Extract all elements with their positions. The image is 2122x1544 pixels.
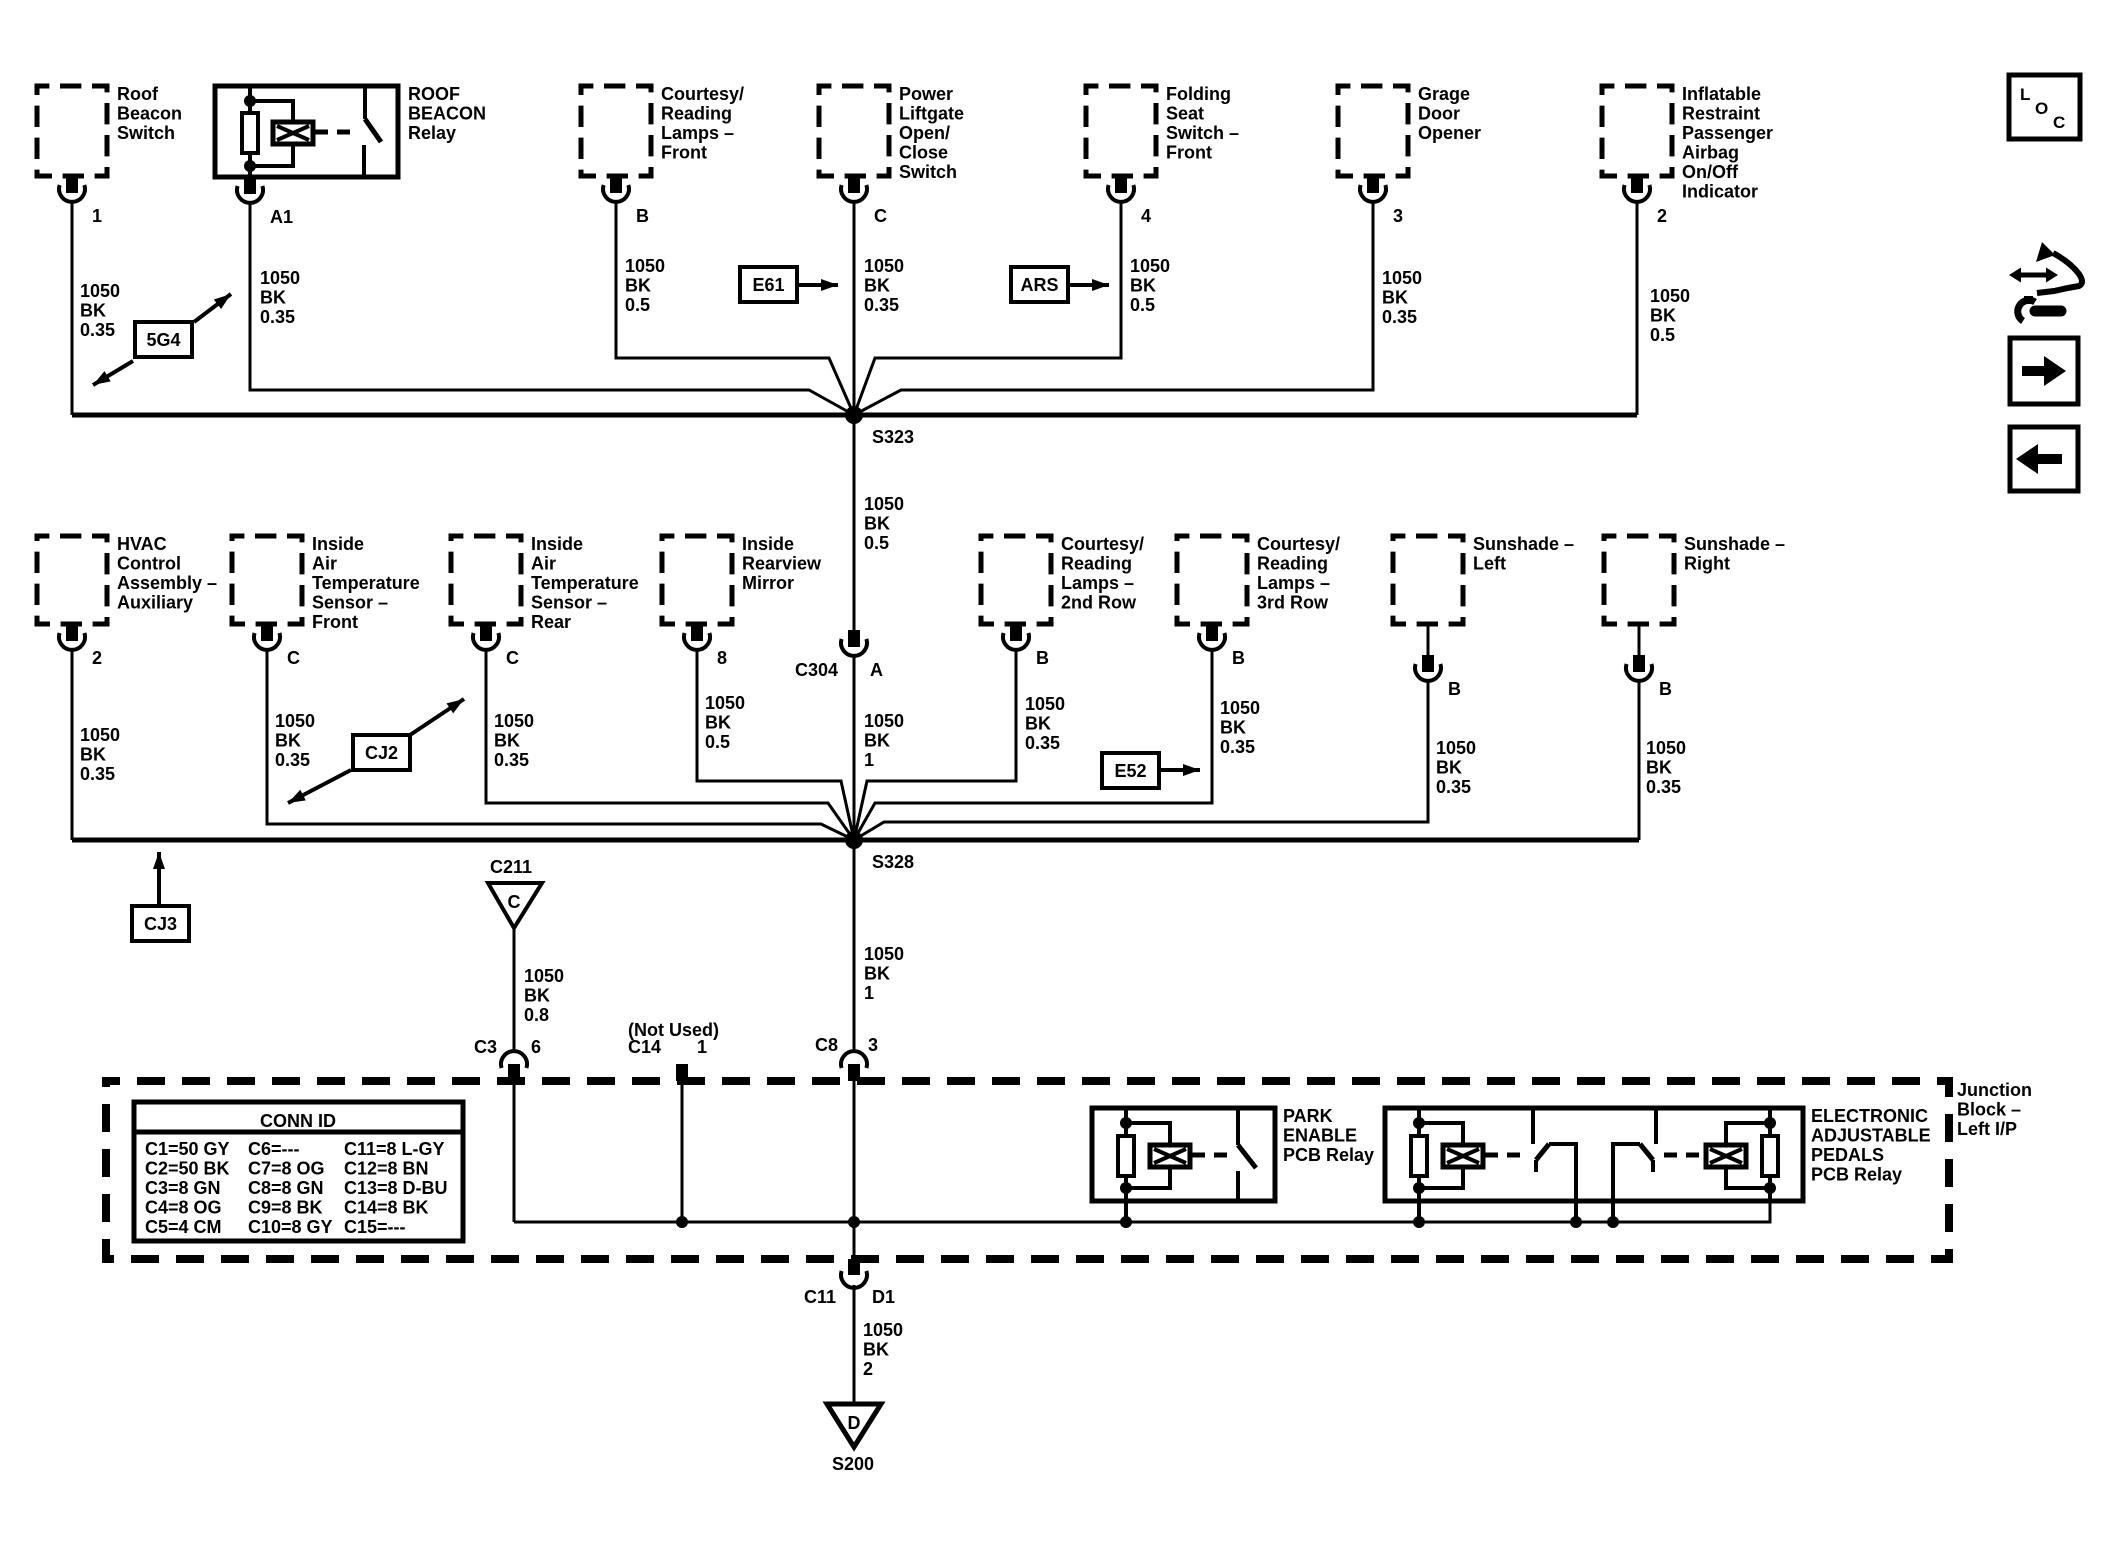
svg-text:CJ2: CJ2 <box>365 743 398 763</box>
connector C8 pin 3 <box>815 1035 878 1081</box>
svg-text:C5=4 CM: C5=4 CM <box>145 1217 222 1237</box>
svg-text:E52: E52 <box>1114 761 1146 781</box>
svg-text:S200: S200 <box>832 1454 874 1474</box>
svg-text:2: 2 <box>1657 206 1667 226</box>
wire label 1050 BK 0.35 <box>80 725 120 784</box>
in-line connector C304 pin A <box>795 630 883 680</box>
EAP right node top <box>1764 1117 1776 1129</box>
relay coil branch vertical <box>248 86 252 177</box>
connector pin 4 of Folding Seat Switch - Front <box>1108 176 1151 226</box>
wire: Inside Air Temp Rear C to S328 <box>486 651 854 840</box>
relay resistor <box>242 113 258 153</box>
svg-text:CONN ID: CONN ID <box>260 1111 336 1131</box>
svg-text:C211: C211 <box>490 857 532 877</box>
ground G: triangle D <box>827 1404 881 1447</box>
svg-text:S328: S328 <box>872 852 914 872</box>
svg-text:C: C <box>508 892 521 912</box>
wire: C3 into block <box>513 1081 516 1222</box>
svg-text:C11: C11 <box>804 1287 836 1307</box>
connector pin 8 of Inside Rearview Mirror <box>684 624 727 668</box>
component box: Grage Door Opener <box>1338 84 1481 176</box>
svg-text:C304: C304 <box>795 660 838 680</box>
relay coil loop wiring <box>250 101 293 166</box>
wire: S328 ground bus row2 <box>72 838 1639 843</box>
svg-text:C14: C14 <box>628 1037 661 1057</box>
EAP left node top <box>1413 1117 1425 1129</box>
connector pin B of Sunshade - Right <box>1626 624 1672 699</box>
svg-text:C10=8 GY: C10=8 GY <box>248 1217 333 1237</box>
junction dot sw2/bus <box>1607 1216 1619 1228</box>
wire: S323 ground bus row1 <box>72 413 1637 418</box>
relay connector pin A1 <box>237 177 293 227</box>
wire label 1050 BK 2 <box>863 1320 903 1379</box>
svg-text:3: 3 <box>1393 206 1403 226</box>
wire: Courtesy 3rd Row B to S328 <box>854 651 1212 840</box>
CONN ID table <box>134 1102 463 1241</box>
reference box E52 <box>1102 753 1159 788</box>
svg-text:C11=8 L-GY: C11=8 L-GY <box>344 1139 445 1159</box>
wire: junction block internal bus <box>514 1201 1770 1222</box>
component box: Inflatable Restraint Passenger Airbag On/Off Indicator <box>1602 84 1773 202</box>
wire: Inside Air Temp Front C to S328 <box>267 651 854 840</box>
connector C211 label <box>490 857 532 877</box>
svg-text:CJ3: CJ3 <box>144 914 177 934</box>
wire label 1050 BK 1 <box>864 944 904 1003</box>
EAP left dashed link <box>1485 1153 1528 1158</box>
svg-text:C14=8 BK: C14=8 BK <box>344 1198 429 1218</box>
wire label 1050 BK 0.5 <box>625 256 665 315</box>
ground label S200 <box>832 1454 874 1474</box>
wire label 1050 BK 0.35 <box>1382 268 1422 327</box>
wire: EAP left coil to bus <box>1417 1201 1421 1222</box>
svg-text:C: C <box>874 206 887 226</box>
park relay coil vertical <box>1124 1108 1128 1201</box>
wire: Sunshade Left B to S328 <box>854 682 1428 840</box>
connector pin C of Power Liftgate Open/ Close Switch <box>841 176 887 226</box>
wire label 1050 BK 0.35 <box>494 711 534 770</box>
svg-text:C15=---: C15=--- <box>344 1217 406 1237</box>
EAP right node bottom <box>1764 1182 1776 1194</box>
wire: S328 down to C8 <box>853 840 856 1051</box>
wire: Inflatable Restraint 2 to S323 <box>1636 203 1639 415</box>
arrow 5G4 to switch wire <box>93 361 133 385</box>
connector pin 2 of HVAC Control Assembly - Auxiliary <box>59 624 102 668</box>
wire: C304 to S328 <box>853 656 856 840</box>
arrow 5G4 to relay wire <box>194 294 231 322</box>
component box: HVAC Control Assembly - Auxiliary <box>37 534 217 624</box>
wire: C11 to ground S200 <box>853 1285 856 1404</box>
reference box ARS <box>1011 267 1068 302</box>
svg-text:C7=8 OG: C7=8 OG <box>248 1159 325 1179</box>
EAP left node bottom <box>1413 1182 1425 1194</box>
svg-text:Courtesy/ReadingLamps –3rd Row: Courtesy/ReadingLamps –3rd Row <box>1257 534 1340 613</box>
EAP right coil <box>1706 1145 1746 1167</box>
component box: Roof Beacon Switch <box>37 84 182 176</box>
svg-text:C3: C3 <box>474 1037 497 1057</box>
relay node bottom <box>244 160 256 172</box>
junction dot C14/bus <box>676 1216 688 1228</box>
icon: vehicle with wrench <box>2009 242 2082 321</box>
wire label 1050 BK 0.8 <box>524 966 564 1025</box>
connector C211 triangle C <box>488 883 542 928</box>
junction dot EAP left/bus <box>1413 1216 1425 1228</box>
park relay coil loop <box>1126 1123 1170 1188</box>
park relay node bottom <box>1120 1182 1132 1194</box>
EAP right dashed link <box>1664 1153 1704 1158</box>
wire label 1050 BK 0.35 <box>260 268 300 327</box>
junction dot sw1/bus <box>1570 1216 1582 1228</box>
wire label 1050 BK 0.35 <box>864 256 904 315</box>
wire: Courtesy 2nd Row B to S328 <box>854 651 1016 840</box>
arrow CJ3 to ground bus <box>153 852 165 906</box>
EAP left coil <box>1443 1145 1483 1167</box>
wire: C14 into block <box>681 1081 684 1222</box>
svg-text:C8: C8 <box>815 1035 838 1055</box>
svg-text:ARS: ARS <box>1020 275 1058 295</box>
svg-text:B: B <box>1232 648 1245 668</box>
wire: Garage Door 3 to S323 <box>854 203 1373 415</box>
svg-text:D1: D1 <box>872 1287 895 1307</box>
wire: HVAC 2 to S328 bus <box>71 651 74 840</box>
connector pin B of Courtesy/ Reading Lamps - Front <box>603 176 649 226</box>
splice S323 <box>845 406 914 447</box>
connector pin 3 of Grage Door Opener <box>1360 176 1403 226</box>
wire label 1050 BK 0.35 <box>1646 738 1686 797</box>
component box: Folding Seat Switch - Front <box>1086 84 1239 176</box>
svg-text:A1: A1 <box>270 207 293 227</box>
svg-text:4: 4 <box>1141 206 1151 226</box>
svg-text:C3=8 GN: C3=8 GN <box>145 1178 221 1198</box>
park relay node top <box>1120 1117 1132 1129</box>
reference box CJ2 <box>353 735 410 770</box>
svg-text:B: B <box>1036 648 1049 668</box>
EAP right coil vertical <box>1768 1108 1772 1201</box>
relay coil-to-switch dashed link <box>315 130 352 135</box>
EAP right coil loop <box>1726 1123 1770 1188</box>
svg-text:C12=8 BN: C12=8 BN <box>344 1159 429 1179</box>
junction dot C8/bus <box>848 1216 860 1228</box>
park relay dashed link <box>1192 1153 1230 1158</box>
relay coil <box>273 122 313 144</box>
wire label 1050 BK 0.5 <box>864 494 904 553</box>
connector pin B of Courtesy/ Reading Lamps - 3rd Row <box>1199 624 1245 668</box>
svg-text:C13=8 D-BU: C13=8 D-BU <box>344 1178 448 1198</box>
EAP switch 2 <box>1613 1108 1656 1201</box>
svg-text:C8=8 GN: C8=8 GN <box>248 1178 324 1198</box>
svg-text:S323: S323 <box>872 427 914 447</box>
connector C3 pin 6 <box>474 1037 541 1081</box>
relay switch <box>364 86 381 177</box>
EAP relay left coil vertical <box>1417 1108 1421 1201</box>
arrow E52 to courtesy 3rd row wire <box>1159 764 1200 776</box>
svg-text:D: D <box>848 1413 861 1433</box>
wire: Sunshade Right B to S328 <box>1638 682 1641 840</box>
arrow ARS to folding seat wire <box>1068 279 1109 291</box>
arrow E61 to liftgate wire <box>797 279 838 291</box>
connector pin B of Sunshade - Left <box>1415 624 1461 699</box>
svg-text:1: 1 <box>697 1037 707 1057</box>
svg-text:O: O <box>2035 99 2048 118</box>
wire: Inside Rearview Mirror 8 to S328 <box>697 651 854 840</box>
svg-text:C4=8 OG: C4=8 OG <box>145 1198 222 1218</box>
component box: Courtesy/ Reading Lamps - Front <box>581 84 744 176</box>
svg-text:2: 2 <box>92 648 102 668</box>
icon: back arrow box <box>2010 427 2078 491</box>
Junction Block - Left I/P dashed outline <box>106 1081 1949 1259</box>
wire: Power Liftgate C to S323 <box>853 203 856 415</box>
svg-text:C: C <box>287 648 300 668</box>
wire: C8 through block to C11 <box>853 1081 856 1259</box>
svg-text:1: 1 <box>92 206 102 226</box>
component box: Inside Rearview Mirror <box>662 534 822 624</box>
icon: forward arrow box <box>2010 338 2078 404</box>
label Junction Block - Left I/P <box>1957 1080 2032 1139</box>
wire label 1050 BK 1 <box>864 711 904 770</box>
arrow CJ2 to front sensor wire <box>288 770 351 803</box>
connector C14 pin 1 (Not Used) <box>628 1020 719 1081</box>
connector pin 2 of Inflatable Restraint Passenger Airbag On/Off Indicator <box>1624 176 1667 226</box>
svg-text:Courtesy/ReadingLamps –2nd Row: Courtesy/ReadingLamps –2nd Row <box>1061 534 1144 613</box>
svg-text:5G4: 5G4 <box>146 330 180 350</box>
svg-text:B: B <box>1448 679 1461 699</box>
svg-text:A: A <box>870 660 883 680</box>
wire label 1050 BK 0.35 <box>80 281 120 340</box>
svg-text:C: C <box>506 648 519 668</box>
component box: Sunshade - Left <box>1393 534 1574 624</box>
wire label 1050 BK 0.5 <box>1130 256 1170 315</box>
svg-text:3: 3 <box>868 1035 878 1055</box>
wire label 1050 BK 0.35 <box>1025 694 1065 753</box>
wire: park relay to bus <box>1124 1201 1128 1222</box>
reference box E61 <box>740 267 797 302</box>
wire: S323 down to C304 <box>853 415 856 630</box>
component box: Inside Air Temperature Sensor - Front <box>232 534 420 632</box>
relay: PARK ENABLE PCB Relay box <box>1092 1106 1374 1201</box>
connector pin 1 of Roof Beacon Switch <box>59 176 102 226</box>
connector pin C of Inside Air Temperature Sensor - Front <box>254 624 300 668</box>
relay: ELECTRONIC ADJUSTABLE PEDALS PCB Relay box <box>1385 1106 1931 1201</box>
wire: Folding Seat 4 to S323 <box>854 203 1121 415</box>
wire label 1050 BK 0.5 <box>1650 286 1690 345</box>
component box: Inside Air Temperature Sensor - Rear <box>451 534 639 632</box>
EAP switch 1 <box>1533 1108 1576 1201</box>
svg-text:B: B <box>1659 679 1672 699</box>
EAP left coil loop <box>1419 1123 1463 1188</box>
wire label 1050 BK 0.35 <box>275 711 315 770</box>
svg-text:C6=---: C6=--- <box>248 1139 300 1159</box>
connector pin C of Inside Air Temperature Sensor - Rear <box>473 624 519 668</box>
wire label 1050 BK 0.5 <box>705 693 745 752</box>
svg-text:C: C <box>2053 113 2065 132</box>
svg-text:L: L <box>2020 85 2030 104</box>
splice S328 <box>845 831 914 872</box>
svg-text:8: 8 <box>717 648 727 668</box>
arrow CJ2 to rear sensor wire <box>410 699 464 735</box>
EAP left resistor <box>1411 1136 1427 1176</box>
reference box 5G4 <box>135 322 192 357</box>
wire: Roof Beacon Switch pin1 to S323 bus <box>71 203 74 415</box>
relay node top <box>244 95 256 107</box>
wire: relay A1 to S323 <box>250 203 854 415</box>
wire: EAP switch2 to bus <box>1611 1201 1615 1222</box>
connector C11 pin D1 <box>804 1259 895 1307</box>
relay U: ROOF BEACON Relay box <box>215 84 486 177</box>
park relay resistor <box>1118 1136 1134 1176</box>
reference box CJ3 <box>132 906 189 941</box>
wire: Courtesy Front B to S323 <box>616 203 854 415</box>
component box: Power Liftgate Open/ Close Switch <box>819 84 964 182</box>
wire: EAP switch1 to bus <box>1574 1201 1578 1222</box>
EAP right resistor <box>1762 1136 1778 1176</box>
icon: LOC box <box>2009 75 2080 139</box>
svg-text:C1=50 GY: C1=50 GY <box>145 1139 230 1159</box>
svg-text:C2=50 BK: C2=50 BK <box>145 1159 230 1179</box>
connector pin B of Courtesy/ Reading Lamps - 2nd Row <box>1003 624 1049 668</box>
svg-text:E61: E61 <box>752 275 784 295</box>
wire label 1050 BK 0.35 <box>1436 738 1476 797</box>
park relay switch <box>1238 1108 1256 1201</box>
park relay coil <box>1150 1145 1190 1167</box>
svg-text:B: B <box>636 206 649 226</box>
component box: Courtesy/ Reading Lamps - 2nd Row <box>981 534 1144 624</box>
junction dot park relay/bus <box>1120 1216 1132 1228</box>
svg-text:6: 6 <box>531 1037 541 1057</box>
component box: Courtesy/ Reading Lamps - 3rd Row <box>1177 534 1340 624</box>
wire label 1050 BK 0.35 <box>1220 698 1260 757</box>
svg-text:C9=8 BK: C9=8 BK <box>248 1198 323 1218</box>
wire: C211 to C3 <box>513 928 516 1051</box>
component box: Sunshade - Right <box>1604 534 1785 624</box>
